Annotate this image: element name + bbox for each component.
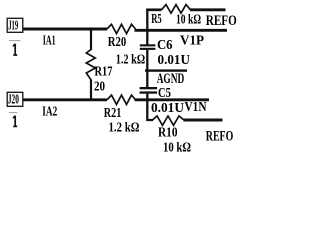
svg-text:J20: J20 bbox=[8, 91, 19, 106]
wire R17 bottom bbox=[90, 80, 92, 100]
svg-text:V1N: V1N bbox=[185, 99, 207, 114]
wire V1P vertical bbox=[146, 9, 148, 45]
wire C6 to AGND bbox=[146, 50, 148, 71]
svg-text:10 kΩ: 10 kΩ bbox=[176, 11, 201, 26]
svg-text:1.2 kΩ: 1.2 kΩ bbox=[116, 52, 146, 67]
svg-text:IA2: IA2 bbox=[42, 104, 57, 119]
svg-text:R20: R20 bbox=[108, 35, 127, 50]
wire AGND to C5 bbox=[146, 71, 148, 87]
svg-text:R17: R17 bbox=[95, 64, 113, 79]
connector J19 bbox=[7, 17, 23, 32]
resistor R20 bbox=[107, 24, 136, 33]
capacitor C5 bbox=[140, 87, 158, 94]
svg-text:REFO: REFO bbox=[206, 128, 234, 144]
resistor R10 bbox=[153, 116, 185, 125]
svg-text:V1P: V1P bbox=[180, 32, 204, 47]
wire node V1P horizontal bbox=[135, 29, 228, 32]
svg-text:0.01U: 0.01U bbox=[158, 52, 191, 67]
svg-text:0.01U: 0.01U bbox=[151, 100, 184, 115]
svg-text:J19: J19 bbox=[8, 17, 18, 32]
svg-text:R5: R5 bbox=[151, 12, 162, 27]
wire to R5 bbox=[146, 8, 161, 11]
svg-text:C5: C5 bbox=[158, 85, 171, 100]
pin 1 label (J20) bbox=[9, 112, 18, 126]
wire node V1N horizontal bbox=[135, 98, 210, 101]
capacitor C6 bbox=[140, 44, 156, 50]
svg-text:20: 20 bbox=[94, 79, 105, 94]
wire R17 top bbox=[90, 29, 92, 50]
resistor R17 bbox=[86, 50, 95, 80]
wire IA2 bbox=[23, 98, 107, 101]
wire R5 to REFO bbox=[190, 8, 226, 11]
svg-text:10 kΩ: 10 kΩ bbox=[163, 140, 191, 155]
svg-text:IA1: IA1 bbox=[43, 33, 56, 48]
ground AGND bbox=[145, 69, 187, 87]
resistor R5 bbox=[162, 5, 191, 14]
wire R10 to REFO bbox=[184, 119, 223, 122]
wire V1N to R10 bbox=[147, 100, 153, 120]
wire IA1 bbox=[23, 28, 107, 31]
wire C5 to V1N bbox=[146, 94, 148, 100]
svg-text:C6: C6 bbox=[157, 37, 173, 52]
svg-text:1.2 kΩ: 1.2 kΩ bbox=[109, 120, 140, 135]
connector J20 bbox=[7, 91, 23, 106]
pin 1 label (J19) bbox=[9, 40, 21, 55]
svg-text:REFO: REFO bbox=[206, 13, 237, 29]
resistor R21 bbox=[107, 95, 136, 104]
svg-text:R10: R10 bbox=[158, 125, 178, 140]
